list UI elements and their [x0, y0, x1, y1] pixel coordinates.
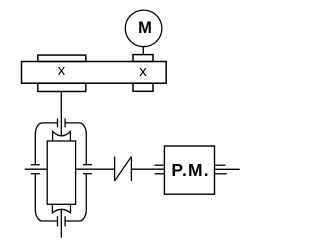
svg-text:P.M.: P.M.	[171, 160, 210, 180]
svg-text:x: x	[58, 62, 66, 79]
svg-text:M: M	[138, 19, 152, 37]
svg-text:x: x	[139, 63, 147, 80]
